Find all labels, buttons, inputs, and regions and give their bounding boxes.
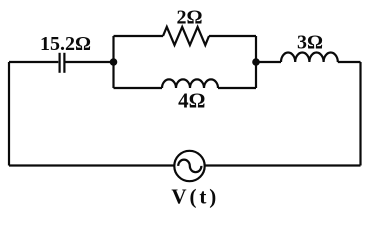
node A junction dot: [110, 58, 118, 66]
svg-text:15.2Ω: 15.2Ω: [40, 33, 91, 55]
svg-text:V(t): V(t): [171, 185, 219, 209]
capacitor C1 plate right: [63, 53, 65, 73]
inductor L1 4ohm coils: [162, 79, 218, 88]
svg-text:3Ω: 3Ω: [297, 31, 323, 53]
wire bottom branch right: [218, 87, 256, 89]
inductor L2 3ohm coils: [281, 52, 338, 62]
wire left vertical: [8, 62, 10, 166]
svg-text:2Ω: 2Ω: [176, 6, 202, 28]
wire top branch right: [209, 35, 256, 37]
source V1 circle: [174, 151, 204, 181]
wire top-left horizontal: [9, 61, 58, 63]
node B junction dot: [252, 58, 260, 66]
wire parallel-left vertical: [112, 36, 114, 88]
wire parallel-right vertical: [255, 36, 257, 88]
wire node B to inductor L2: [256, 61, 281, 63]
wire bottom-left horizontal: [9, 164, 174, 166]
svg-text:4Ω: 4Ω: [178, 88, 205, 112]
wire bottom-right horizontal: [205, 164, 361, 166]
resistor R1 2ohm zigzag: [163, 27, 209, 45]
wire inductor L2 to top-right corner: [338, 61, 361, 63]
wire bottom branch left: [114, 87, 163, 89]
wire right vertical: [359, 62, 361, 166]
wire top branch left: [114, 35, 164, 37]
source V1 sine wave: [178, 160, 201, 173]
capacitor C1 plate left: [58, 53, 60, 73]
wire capacitor to node A: [66, 61, 114, 63]
